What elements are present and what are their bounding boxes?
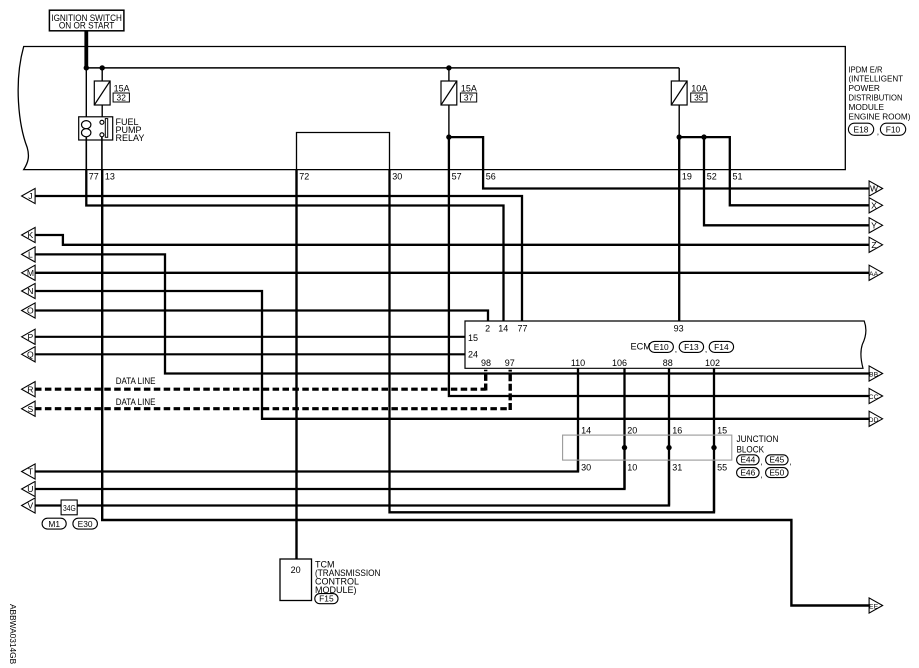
wire P to ECM pin 15 (thin)	[35, 336, 465, 338]
bus wire inside IPDM from ignition feed to fuse 35	[86, 67, 679, 69]
wire bus to fuse 35	[678, 68, 680, 81]
offpage connector arrow BB	[869, 366, 883, 381]
svg-text:K: K	[28, 230, 34, 240]
offpage connector arrow U	[22, 481, 35, 496]
wire U to junction block pin 10	[35, 460, 625, 489]
svg-text:N: N	[27, 286, 33, 296]
ignition switch box B1 "IGNITION SWITCH ON OR START"	[49, 10, 124, 31]
IPDM internal sub-box over pins 72/30	[297, 133, 390, 170]
connector oval F10	[880, 123, 905, 135]
svg-text:ABBWA0314GB: ABBWA0314GB	[8, 604, 18, 665]
svg-text:W: W	[870, 184, 879, 194]
svg-text:,: ,	[760, 470, 762, 480]
svg-text:32: 32	[117, 93, 127, 103]
junction dot JB pin 16 column	[666, 445, 671, 450]
svg-text:F15: F15	[319, 594, 334, 604]
wire fuse35 branch to IPDM pin 51 then X	[704, 137, 869, 205]
wire ignition feed (thick) into IPDM E/R	[84, 31, 88, 68]
svg-text:2: 2	[485, 324, 490, 334]
offpage connector arrow AA	[869, 265, 883, 280]
wire L to BB	[35, 254, 869, 373]
svg-text:20: 20	[627, 425, 637, 435]
svg-text:CC: CC	[869, 394, 879, 401]
svg-text:Z: Z	[871, 240, 876, 250]
svg-text:15: 15	[717, 425, 727, 435]
wire K to Z	[35, 235, 869, 245]
wire ECM pin 88 through junction block to V	[668, 369, 670, 506]
svg-text:F14: F14	[714, 342, 729, 352]
wire fuse37 to IPDM pin 57 then CC	[449, 137, 869, 396]
svg-text:L: L	[28, 250, 33, 260]
wire IPDM pin 77 to ECM pin 14	[86, 170, 503, 321]
svg-text:,: ,	[675, 344, 677, 354]
svg-text:,: ,	[877, 127, 879, 137]
svg-text:106: 106	[612, 358, 627, 368]
offpage connector arrow S	[22, 401, 35, 416]
svg-text:P: P	[28, 332, 34, 342]
svg-text:M: M	[27, 268, 34, 278]
svg-text:Y: Y	[871, 221, 877, 231]
offpage connector arrow Z	[869, 237, 883, 252]
connector oval E45	[766, 455, 789, 465]
svg-text:DATA LINE: DATA LINE	[116, 376, 156, 386]
svg-text:77: 77	[89, 171, 99, 181]
offpage connector arrow R	[22, 382, 35, 397]
ground link box 34G on wire V	[61, 500, 77, 515]
wire relay coil to IPDM pin 77	[85, 137, 87, 170]
svg-text:RELAY: RELAY	[116, 133, 145, 143]
wire bus to fuse 32	[101, 68, 103, 81]
svg-text:Q: Q	[27, 350, 34, 360]
connector oval E44	[737, 455, 760, 465]
svg-text:J: J	[28, 191, 32, 201]
svg-text:52: 52	[707, 171, 717, 181]
wire ECM pin 102 through junction block to pin 55 run	[713, 369, 715, 513]
svg-text:37: 37	[464, 93, 474, 103]
svg-text:V: V	[28, 501, 34, 511]
IPDM E/R box outline with torn left edge	[18, 47, 845, 170]
wire IPDM pin 72 to TCM pin 20	[295, 170, 297, 559]
offpage connector arrow DD	[869, 411, 883, 426]
junction dot JB pin 15 column	[711, 445, 716, 450]
svg-text:ECM: ECM	[631, 342, 651, 352]
svg-text:55: 55	[717, 463, 727, 473]
wire ECM pin 110 through junction block to T	[577, 369, 579, 472]
svg-text:M1: M1	[48, 519, 60, 529]
svg-text:E30: E30	[78, 519, 93, 529]
wire Q to ECM pin 24 (thin)	[35, 353, 465, 355]
svg-text:ON OR START: ON OR START	[59, 21, 115, 31]
junction dot fuse37 split	[446, 134, 451, 139]
svg-text:E10: E10	[654, 342, 669, 352]
offpage connector arrow J	[22, 188, 35, 203]
svg-text:ENGINE ROOM): ENGINE ROOM)	[849, 111, 911, 121]
svg-text:35: 35	[694, 93, 704, 103]
offpage connector arrow K	[22, 227, 35, 242]
svg-text:DATA LINE: DATA LINE	[116, 397, 156, 407]
svg-text:X: X	[871, 201, 877, 211]
svg-text:14: 14	[581, 425, 591, 435]
offpage connector arrow N	[22, 283, 35, 298]
wire T to junction block pin 30	[35, 460, 578, 471]
svg-text:24: 24	[468, 349, 478, 359]
svg-text:JUNCTION: JUNCTION	[737, 434, 779, 444]
wire ECM pin 106 through junction block to U	[623, 369, 625, 490]
connector oval E46	[737, 468, 760, 478]
svg-text:20: 20	[291, 565, 301, 575]
offpage connector arrow X	[869, 198, 883, 213]
svg-text:DD: DD	[869, 417, 879, 424]
svg-text:14: 14	[498, 324, 508, 334]
svg-text:34G: 34G	[63, 503, 76, 513]
connector oval F14	[709, 341, 733, 352]
svg-text:E44: E44	[740, 455, 755, 465]
svg-text:AA: AA	[869, 271, 879, 278]
svg-text:98: 98	[481, 358, 491, 368]
svg-text:S: S	[28, 404, 34, 414]
svg-text:16: 16	[672, 425, 682, 435]
wire bus to fuse 37	[448, 68, 450, 81]
connector oval F13	[679, 341, 703, 352]
svg-text:56: 56	[486, 171, 496, 181]
offpage connector arrow L	[22, 247, 35, 262]
svg-text:15: 15	[468, 333, 478, 343]
offpage connector arrow T	[22, 464, 35, 479]
fuse 15A 32	[94, 81, 129, 105]
wire fuse35 to IPDM pin 19 to ECM pin 93	[678, 137, 680, 321]
junction dot bus/fuse32	[100, 65, 105, 70]
junction block box	[563, 435, 732, 460]
svg-text:,: ,	[705, 344, 707, 354]
svg-text:BB: BB	[869, 372, 879, 379]
connector oval E30	[73, 518, 98, 529]
wire IPDM pin 13 long run to EE	[102, 170, 869, 606]
wire fuse 35 down to junction	[678, 105, 680, 137]
svg-text:BLOCK: BLOCK	[737, 445, 765, 455]
svg-text:E18: E18	[854, 125, 869, 135]
svg-text:77: 77	[517, 324, 527, 334]
svg-text:U: U	[27, 484, 33, 494]
offpage connector arrow M	[22, 265, 35, 280]
fuel pump relay label	[116, 117, 145, 143]
offpage connector arrow Q	[22, 347, 35, 362]
svg-text:,: ,	[789, 457, 791, 467]
offpage connector arrow W	[869, 181, 883, 196]
svg-text:EE: EE	[869, 604, 879, 611]
offpage connector arrow O	[22, 303, 35, 318]
ECM box with torn right edge	[465, 321, 866, 368]
TCM label	[315, 560, 381, 596]
wire N to DD	[35, 291, 869, 419]
svg-text:R: R	[27, 384, 33, 394]
svg-text:97: 97	[505, 358, 515, 368]
junction dot JB pin 20 column	[622, 445, 627, 450]
TCM box	[280, 559, 312, 601]
fuse 10A 35	[671, 81, 707, 105]
junction dot ignition/bus	[84, 65, 89, 70]
svg-text:102: 102	[705, 358, 720, 368]
svg-text:,: ,	[760, 457, 762, 467]
wire M to AA	[35, 272, 869, 274]
junction dot fuse35 split pin52	[701, 134, 706, 139]
wire V to junction block pin 31	[35, 460, 669, 505]
offpage connector arrow Y	[869, 218, 883, 233]
connector oval F15	[315, 594, 338, 604]
wire fuse 37 down to junction	[448, 105, 450, 137]
svg-text:T: T	[28, 467, 34, 477]
wire ignition feed to relay coil	[85, 68, 87, 118]
fuel pump relay	[79, 117, 113, 140]
junction dot bus/fuse37	[446, 65, 451, 70]
wire fuse 32 to relay contact	[101, 105, 103, 121]
svg-text:F13: F13	[684, 342, 699, 352]
svg-text:E46: E46	[740, 468, 755, 478]
connector oval E18	[848, 123, 879, 137]
svg-text:93: 93	[674, 324, 684, 334]
svg-text:31: 31	[672, 463, 682, 473]
fuse 15A 37	[441, 81, 477, 105]
svg-text:30: 30	[392, 171, 402, 181]
dashed data line wire R to ECM pin 98	[35, 388, 486, 391]
wire O to ECM pin 2	[35, 311, 488, 322]
svg-text:10: 10	[627, 463, 637, 473]
junction dot fuse35 split pin19	[677, 134, 682, 139]
svg-text:88: 88	[663, 358, 673, 368]
IPDM E/R label text	[849, 64, 911, 121]
wire fuse37 branch to IPDM pin 56 then W	[449, 137, 869, 188]
svg-text:19: 19	[682, 171, 692, 181]
wire fuse35 branch to IPDM pin 52 then Y	[679, 137, 869, 225]
offpage connector arrow EE	[869, 598, 883, 613]
dashed data line wire S to ECM pin 97	[35, 407, 510, 410]
wire IPDM pin 30 to junction block pin 55	[390, 170, 715, 513]
svg-text:E45: E45	[769, 455, 784, 465]
connector oval E50	[766, 468, 789, 478]
wire J to ECM pin 77	[35, 196, 522, 321]
svg-text:F10: F10	[886, 125, 901, 135]
offpage connector arrow V	[22, 498, 35, 513]
svg-text:57: 57	[452, 171, 462, 181]
svg-text:13: 13	[105, 171, 115, 181]
offpage connector arrow P	[22, 329, 35, 344]
connector oval M1	[42, 518, 66, 529]
wire relay contact to IPDM pin 13	[101, 137, 103, 170]
svg-text:110: 110	[571, 358, 585, 368]
offpage connector arrow CC	[869, 388, 883, 403]
svg-text:72: 72	[299, 171, 309, 181]
svg-text:30: 30	[581, 463, 591, 473]
connector oval E10	[649, 341, 673, 352]
svg-text:O: O	[27, 306, 34, 316]
svg-text:51: 51	[733, 171, 743, 181]
svg-text:E50: E50	[769, 468, 784, 478]
